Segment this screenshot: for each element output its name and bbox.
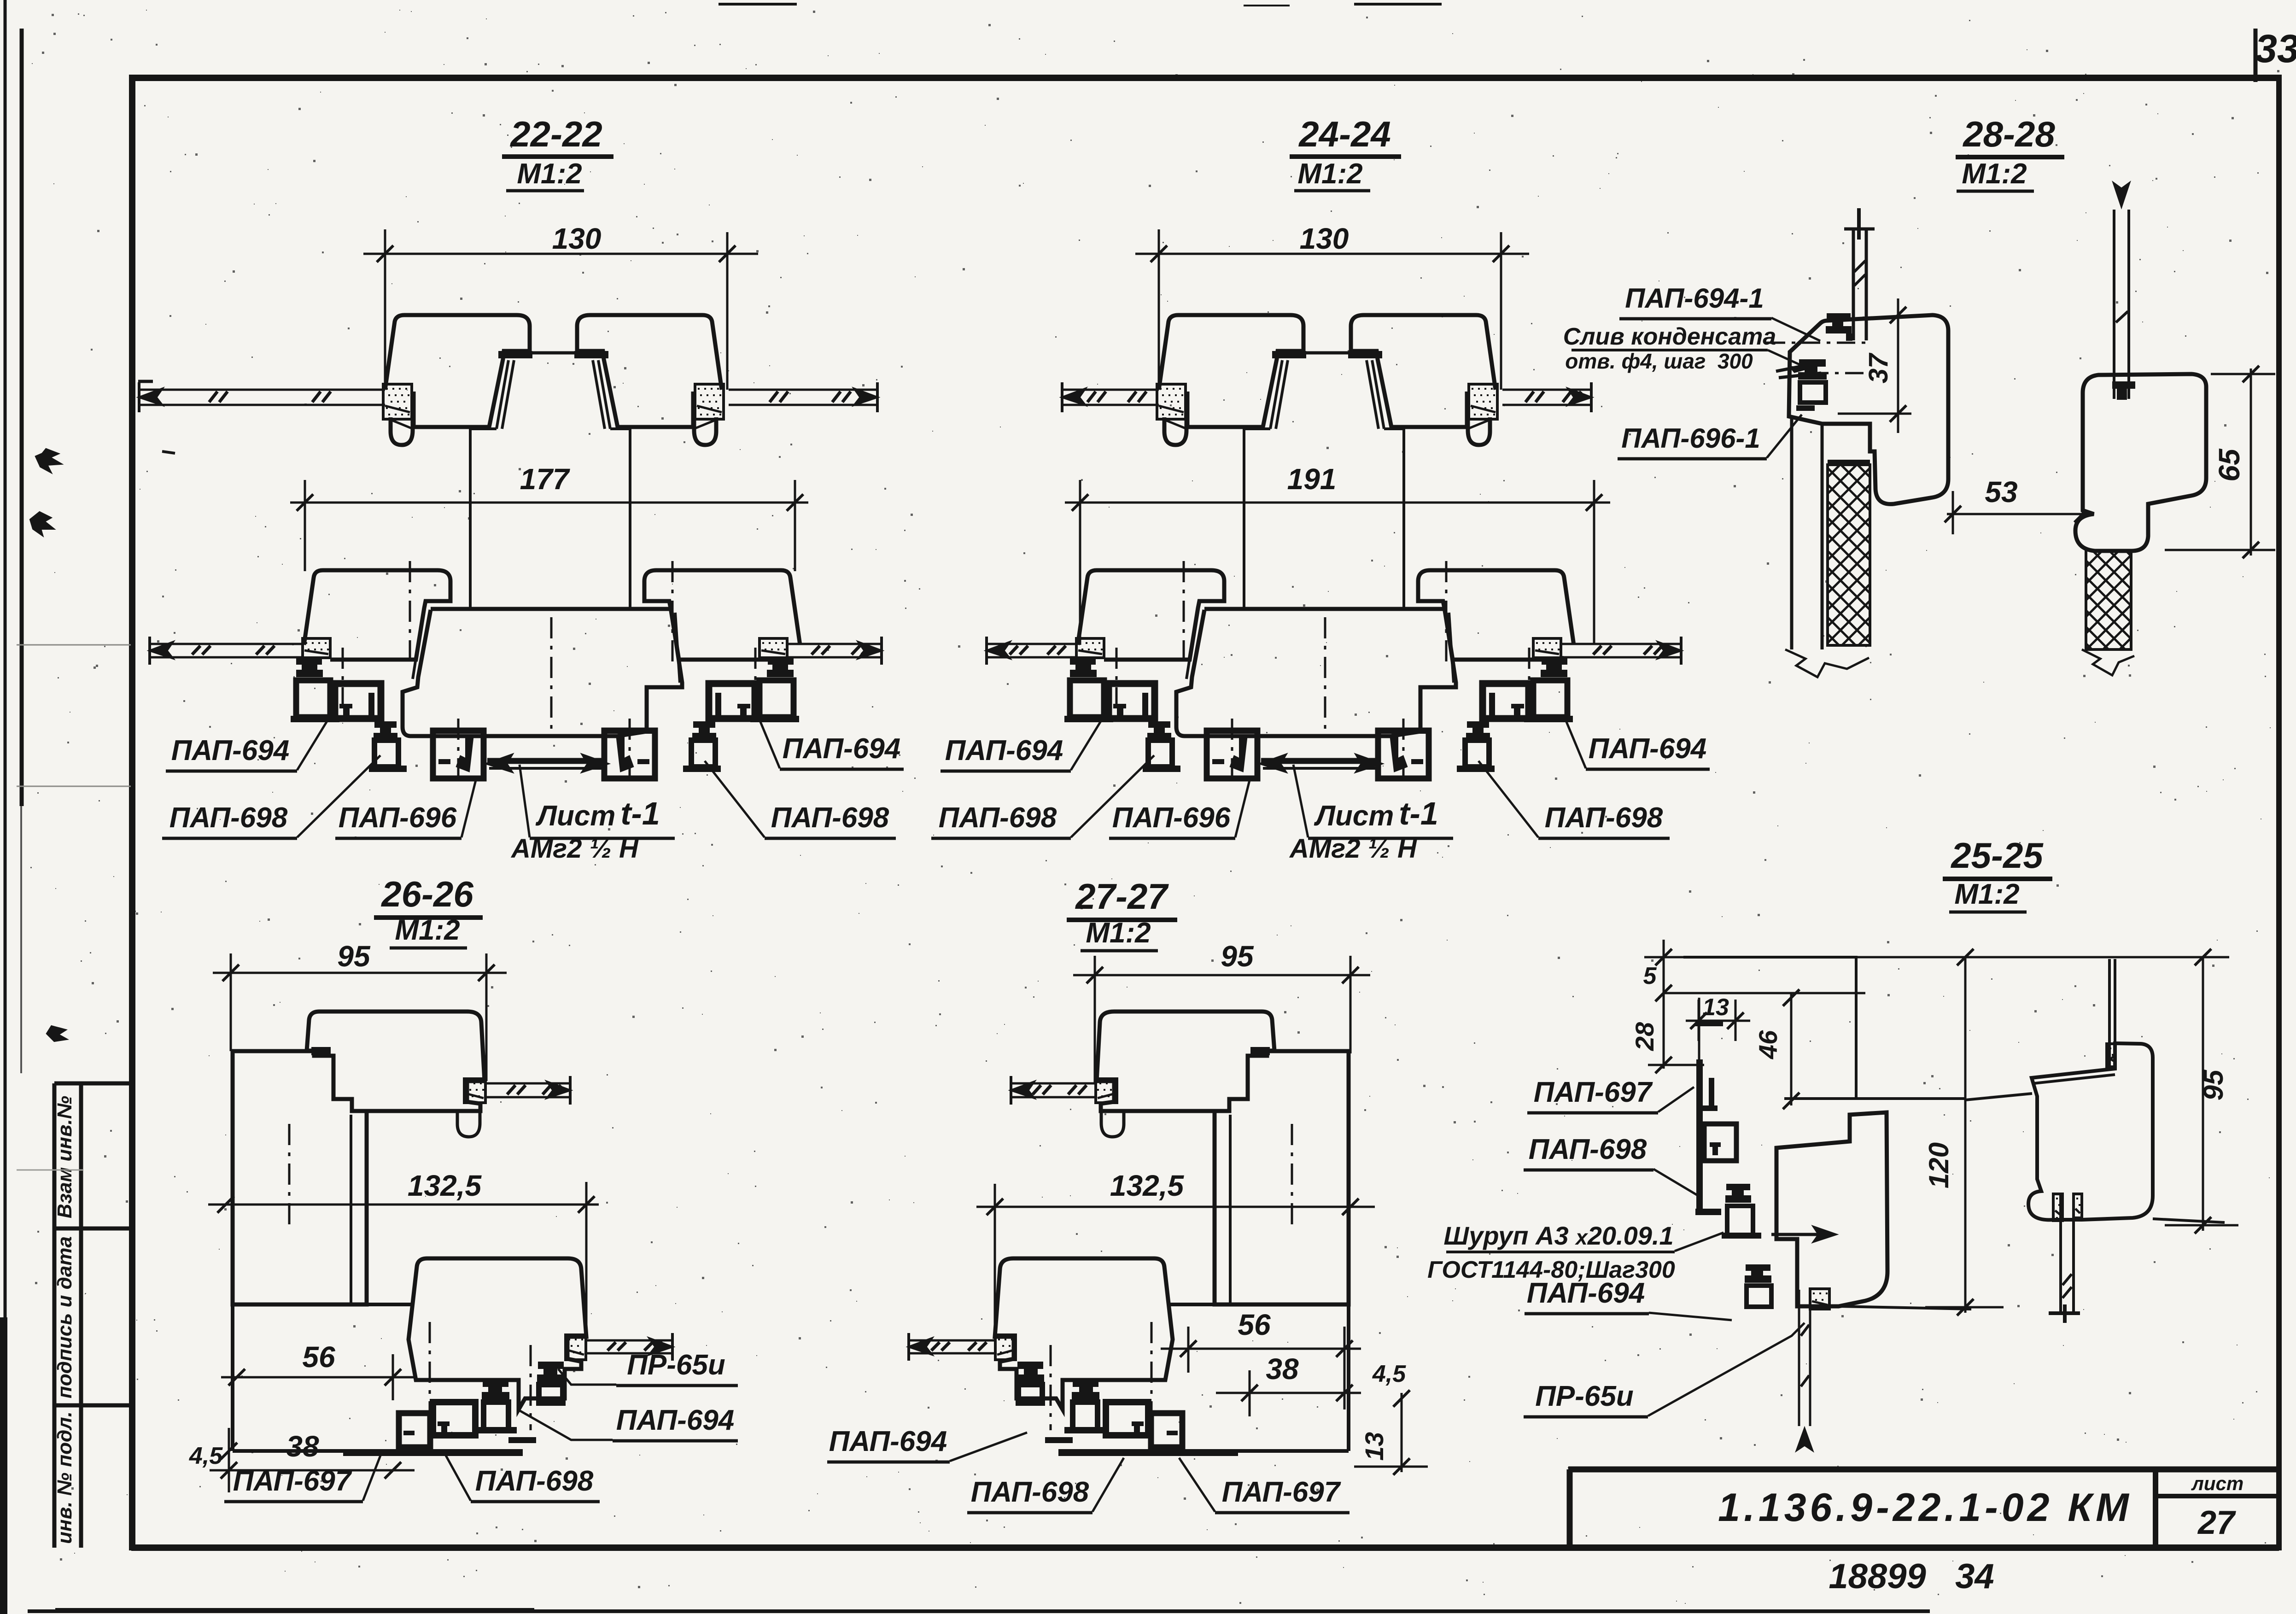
26-26 ПАП-698 channel — [433, 1402, 475, 1435]
26-26 frame lower-left region — [231, 1304, 234, 1451]
glass 27-27 upper — [1011, 1082, 1096, 1085]
svg-text:95: 95 — [1221, 940, 1254, 973]
ПАП-694 right cluster: glazing bead — [759, 638, 787, 658]
svg-text:33: 33 — [2255, 27, 2296, 71]
26-26 upper gasket — [1250, 1047, 1270, 1055]
lower right sash block — [1418, 570, 1574, 660]
26-26 lower glazing bead — [566, 1335, 586, 1360]
svg-text:95: 95 — [337, 940, 371, 973]
25-25 screw area profile — [1726, 1184, 1750, 1190]
svg-text:ПАП-697: ПАП-697 — [1534, 1076, 1653, 1108]
svg-text:ПАП-694: ПАП-694 — [1527, 1277, 1645, 1309]
svg-text:28-28: 28-28 — [1962, 114, 2055, 154]
26-26 lower glazing bead — [995, 1335, 1016, 1360]
glass panes 22-22 lower — [150, 643, 303, 645]
mullion neck step — [470, 427, 497, 430]
svg-text:АМг2 ½ Н: АМг2 ½ Н — [510, 834, 639, 864]
sheet t-1 bar — [1261, 758, 1381, 764]
ПАП-698 left channel — [1109, 684, 1155, 719]
mullion head (trapezoid) — [507, 351, 600, 355]
svg-text:13: 13 — [1360, 1432, 1389, 1461]
26-26 frame profile (tall rectangle) — [1215, 1051, 1349, 1304]
glass 26-26 lower — [585, 1339, 672, 1342]
glass panes 24-24 lower — [987, 643, 1076, 645]
left sash foot — [391, 417, 413, 445]
26-26 upper sash foot — [457, 1111, 480, 1137]
svg-text:t-1: t-1 — [620, 795, 660, 831]
svg-text:Слив конденсата: Слив конденсата — [1563, 323, 1776, 350]
26-26 lower sash profile — [995, 1258, 1173, 1409]
25-25 frame head outline — [1683, 957, 1965, 1099]
svg-text:Взам инв.№: Взам инв.№ — [53, 1096, 76, 1218]
ПАП-698 right lower stack — [1467, 721, 1489, 728]
26-26 ПАП-694 profile — [483, 1380, 508, 1387]
25-25 ПР-65и glazing bead — [1810, 1289, 1829, 1309]
svg-text:ПАП-698: ПАП-698 — [1545, 802, 1663, 834]
ПАП-694 left profile — [296, 658, 322, 665]
28-28 right insulation strip — [2086, 522, 2131, 649]
stamp column box — [53, 1083, 57, 1548]
26-26 lower sash profile — [409, 1258, 586, 1409]
25-25 soffit line to ledge — [1965, 1094, 2032, 1100]
svg-text:132,5: 132,5 — [408, 1169, 482, 1202]
svg-text:ПАП-698: ПАП-698 — [475, 1465, 594, 1497]
svg-text:37: 37 — [1864, 352, 1893, 383]
mullion body verticals — [469, 429, 472, 609]
centerlines — [1183, 561, 1185, 669]
section 22-22 upper right sash profile — [1351, 315, 1496, 427]
glass panes 22-22 upper — [139, 389, 385, 391]
svg-text:М1:2: М1:2 — [1954, 878, 2019, 910]
26-26 upper gasket — [311, 1047, 331, 1055]
glass 27-27 lower — [909, 1339, 996, 1342]
26-26 upper sash profile — [1097, 1012, 1274, 1111]
28-28 dash centerlines — [1767, 342, 1866, 344]
sill body (big mass) — [403, 609, 682, 736]
26-26 centerlines — [429, 1322, 431, 1456]
26-26 frame lower-left region — [1347, 1304, 1350, 1451]
svg-text:Лист: Лист — [1314, 800, 1402, 832]
28-28 right gasket bits — [2112, 381, 2135, 389]
25-25 ПР-65и glass — [1798, 1290, 1800, 1426]
svg-text:t-1: t-1 — [1399, 795, 1438, 831]
ПАП-696 left channel — [433, 731, 484, 778]
26-26 ПАП-694 profile — [1073, 1380, 1098, 1387]
ПАП-694 right cluster: glazing bead — [1533, 638, 1561, 658]
right sash foot — [1468, 417, 1490, 445]
svg-text:27: 27 — [2197, 1504, 2236, 1541]
stamp divider 2 — [54, 1403, 132, 1408]
svg-text:56: 56 — [1238, 1308, 1271, 1341]
svg-text:ПАП-697: ПАП-697 — [1222, 1476, 1341, 1508]
26-26 centerlines — [1151, 1322, 1153, 1456]
left sash foot — [1164, 417, 1186, 445]
26-26 upper sash foot — [1101, 1111, 1124, 1137]
svg-text:отв. ф4, шаг 300: отв. ф4, шаг 300 — [1565, 349, 1753, 373]
svg-text:ПАП-694: ПАП-694 — [829, 1426, 947, 1457]
ПАП-694 left cluster: glazing bead — [303, 638, 330, 658]
svg-text:4,5: 4,5 — [1372, 1361, 1406, 1387]
svg-text:130: 130 — [1300, 222, 1349, 255]
svg-text:191: 191 — [1287, 462, 1337, 496]
28-28 right vertical glass — [2113, 210, 2115, 399]
section 27-27 core (mirrored copy) — [995, 1012, 1349, 1456]
svg-text:ПАП-696: ПАП-696 — [339, 802, 457, 834]
26-26 ПАП-698 channel — [1106, 1402, 1148, 1435]
svg-text:38: 38 — [286, 1430, 319, 1463]
sill body (big mass) — [1176, 609, 1456, 736]
lower left sash block — [1078, 570, 1224, 660]
26-26 upper glazing bead — [1096, 1079, 1117, 1103]
25-25 right glass strip — [2053, 1194, 2062, 1221]
26-26 bottom flange — [1058, 1449, 1238, 1456]
28-28 ПАП-696-1 dark bits — [1799, 359, 1826, 367]
svg-text:65: 65 — [2213, 448, 2246, 482]
svg-text:ПАП-698: ПАП-698 — [169, 802, 288, 834]
ПАП-698 right channel — [709, 684, 755, 719]
svg-text:38: 38 — [1266, 1352, 1299, 1386]
svg-text:М1:2: М1:2 — [517, 158, 582, 190]
ПАП-696 right channel — [1378, 731, 1429, 778]
28-28 ПАП-694-1 dark bits — [1827, 313, 1851, 321]
25-25 right sash profile — [2028, 1043, 2153, 1220]
ПАП-698 right lower stack — [693, 721, 715, 728]
svg-text:ПАП-698: ПАП-698 — [771, 802, 889, 834]
mullion head (trapezoid) — [1280, 351, 1374, 355]
28-28 right sash profile — [2075, 374, 2206, 551]
gasket left — [498, 351, 532, 358]
ПАП-694 right profile — [1542, 658, 1567, 665]
scan ink blobs — [36, 449, 61, 472]
svg-text:25-25: 25-25 — [1950, 835, 2044, 876]
svg-text:ПР-65и: ПР-65и — [1535, 1380, 1633, 1412]
svg-text:ПАП-697: ПАП-697 — [233, 1465, 352, 1497]
28-28 drip / слив channel — [1776, 363, 1818, 371]
26-26 upper sash profile — [307, 1012, 485, 1111]
svg-text:М1:2: М1:2 — [395, 914, 460, 946]
svg-text:АМг2 ½ Н: АМг2 ½ Н — [1289, 834, 1417, 864]
25-25 top dim line — [1644, 956, 2229, 959]
svg-text:13: 13 — [1702, 994, 1729, 1021]
svg-text:53: 53 — [1985, 475, 2017, 509]
svg-text:132,5: 132,5 — [1110, 1169, 1185, 1202]
svg-text:27-27: 27-27 — [1075, 876, 1169, 917]
gasket left — [1272, 351, 1306, 358]
25-25 ПАП-698 channel — [1704, 1124, 1736, 1161]
glass panes 24-24 upper — [1062, 389, 1159, 391]
svg-text:ПАП-694: ПАП-694 — [945, 735, 1063, 766]
centerlines — [409, 561, 411, 669]
svg-text:120: 120 — [1923, 1142, 1954, 1188]
26-26 frame profile (tall rectangle) — [233, 1051, 367, 1304]
gasket right — [1348, 351, 1382, 358]
svg-text:М1:2: М1:2 — [1297, 158, 1362, 190]
svg-text:Лист: Лист — [535, 800, 623, 832]
26-26 ПР-65и bead profile — [1017, 1362, 1043, 1369]
25-25 right sash strap — [2108, 959, 2111, 1067]
svg-text:130: 130 — [552, 222, 602, 255]
svg-text:ПАП-698: ПАП-698 — [939, 802, 1057, 834]
section 22-22 upper left sash profile — [385, 315, 530, 427]
26-26 small channel left — [1151, 1413, 1182, 1447]
ПАП-698 left lower stack — [1148, 721, 1170, 728]
svg-text:ПАП-694: ПАП-694 — [1589, 733, 1707, 765]
28-28 left vertical glass — [1852, 229, 1855, 340]
svg-text:ПАП-698: ПАП-698 — [971, 1476, 1089, 1508]
drawing frame border — [131, 75, 2280, 81]
25-25 sash center outline — [1776, 1112, 1887, 1306]
sheet t-1 bar — [487, 758, 607, 764]
mullion neck step — [1244, 427, 1270, 430]
svg-text:46: 46 — [1753, 1030, 1782, 1059]
28-28 wall break symbol — [1785, 649, 1869, 677]
svg-text:ПАП-694-1: ПАП-694-1 — [1625, 283, 1764, 314]
scan left edge line — [4, 0, 7, 1614]
26-26 ПР-65и bead profile — [538, 1362, 564, 1369]
svg-text:инв. № подл.: инв. № подл. — [53, 1411, 76, 1544]
ПАП-696 right channel — [604, 731, 655, 778]
ПАП-698 left channel — [335, 684, 381, 719]
scan bottom edge line — [28, 1609, 1930, 1613]
title block box — [1568, 1467, 2279, 1473]
svg-text:ПАП-694: ПАП-694 — [171, 735, 290, 766]
28-28 head and sash mass — [1789, 315, 1948, 504]
25-25 ПАП-697 profile — [1696, 1059, 1703, 1214]
svg-text:5: 5 — [1643, 963, 1657, 989]
svg-text:М1:2: М1:2 — [1086, 917, 1151, 949]
svg-text:ПАП-696-1: ПАП-696-1 — [1621, 423, 1760, 454]
28-28 insulation hatched strip — [1828, 465, 1870, 645]
svg-text:18899 34: 18899 34 — [1829, 1557, 1994, 1596]
25-25 ПАП-694 block — [1746, 1264, 1770, 1271]
svg-text:ПАП-694: ПАП-694 — [616, 1404, 735, 1436]
ПАП-698 left lower stack — [374, 721, 397, 728]
svg-text:1.136.9-22.1-02 КМ: 1.136.9-22.1-02 КМ — [1718, 1485, 2132, 1530]
right sash foot — [694, 417, 716, 445]
25-25 screw arrow — [1771, 1233, 1824, 1236]
svg-text:22-22: 22-22 — [509, 114, 602, 154]
svg-text:ПАП-696: ПАП-696 — [1112, 802, 1231, 834]
svg-text:4,5: 4,5 — [189, 1443, 223, 1469]
lower right sash block — [644, 570, 800, 660]
scan inner left vertical artifact — [20, 29, 24, 806]
svg-text:ПР-65и: ПР-65и — [627, 1349, 725, 1381]
svg-text:28: 28 — [1630, 1022, 1659, 1051]
svg-text:56: 56 — [302, 1340, 335, 1374]
26-26 upper glazing bead — [464, 1079, 485, 1103]
svg-text:М1:2: М1:2 — [1962, 158, 2027, 190]
gasket right — [574, 351, 608, 358]
section 22-22 upper left sash profile — [1159, 315, 1303, 427]
svg-text:Шуруп А3 x20.09.1: Шуруп А3 x20.09.1 — [1443, 1221, 1673, 1250]
svg-text:ПАП-698: ПАП-698 — [1529, 1134, 1647, 1165]
ПАП-696 left channel — [1207, 731, 1257, 778]
26-26 bottom flange — [343, 1449, 523, 1456]
section 22-22 upper right sash profile — [577, 315, 722, 427]
ПАП-694 left cluster: glazing bead — [1076, 638, 1104, 658]
ПАП-694 left profile — [1070, 658, 1096, 665]
svg-text:26-26: 26-26 — [380, 874, 473, 914]
26-26 small channel left — [399, 1413, 430, 1447]
ПАП-694 right profile — [768, 658, 794, 665]
mullion body verticals — [1243, 429, 1245, 609]
section 24-24 core (translated copy) — [1064, 315, 1574, 783]
svg-text:лист: лист — [2191, 1473, 2244, 1494]
28-28 wall strip — [1790, 416, 1794, 649]
glass 26-26 upper — [485, 1082, 570, 1085]
lower left sash block — [304, 570, 450, 660]
svg-text:подпись и дата: подпись и дата — [53, 1236, 76, 1398]
svg-text:177: 177 — [520, 462, 571, 496]
stamp divider 1 — [54, 1227, 132, 1231]
scan top edge dashes — [719, 3, 797, 6]
svg-text:24-24: 24-24 — [1298, 114, 1391, 154]
ПАП-698 right channel — [1483, 684, 1529, 719]
svg-text:ПАП-694: ПАП-694 — [783, 733, 901, 765]
